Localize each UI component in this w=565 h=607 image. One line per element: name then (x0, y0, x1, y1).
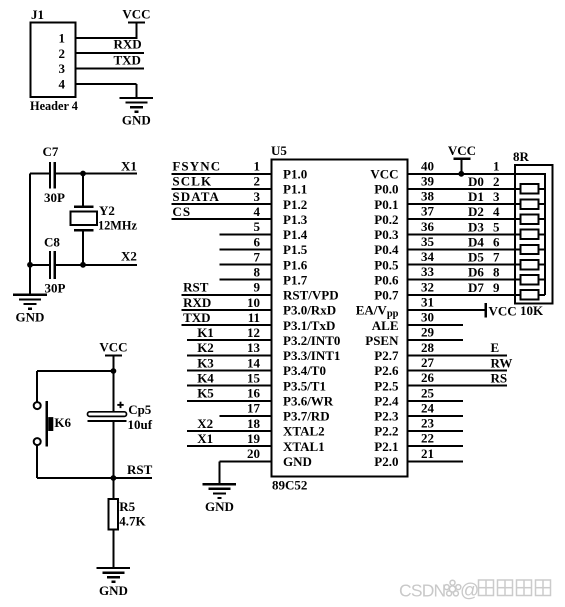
svg-text:14: 14 (247, 355, 261, 370)
svg-text:ALE: ALE (372, 318, 399, 333)
svg-text:X2: X2 (197, 416, 213, 431)
wire pin 10 (182, 309, 273, 311)
svg-text:30: 30 (421, 310, 434, 325)
svg-text:GND: GND (205, 499, 234, 514)
svg-text:39: 39 (421, 173, 435, 188)
svg-text:28: 28 (421, 340, 435, 355)
wire pin 31 (406, 309, 485, 311)
svg-text:P0.3: P0.3 (374, 227, 399, 242)
wire J1 pin1 to VCC (76, 37, 137, 39)
svg-text:CS: CS (172, 204, 191, 219)
svg-text:32: 32 (421, 279, 434, 294)
capacitor Cp5 polarized (88, 412, 127, 421)
wire J1 pin3 TXD (76, 68, 144, 70)
svg-text:Header 4: Header 4 (30, 99, 78, 113)
svg-text:RS: RS (491, 370, 508, 385)
svg-text:12: 12 (247, 325, 260, 340)
resistor element 8 of network 8R (521, 290, 545, 299)
svg-text:P3.2/INT0: P3.2/INT0 (283, 333, 340, 348)
svg-text:P3.3/INT1: P3.3/INT1 (283, 348, 340, 363)
svg-text:1: 1 (254, 159, 261, 174)
svg-text:C7: C7 (43, 144, 59, 159)
svg-text:21: 21 (421, 446, 434, 461)
svg-text:30P: 30P (44, 190, 65, 205)
svg-text:P1.7: P1.7 (283, 272, 308, 287)
wire pin 17 (220, 415, 273, 417)
svg-text:D6: D6 (468, 265, 484, 280)
svg-text:1: 1 (493, 158, 500, 173)
svg-text:X1: X1 (197, 431, 213, 446)
svg-text:P3.4/T0: P3.4/T0 (283, 363, 326, 378)
svg-text:K3: K3 (197, 355, 214, 370)
svg-text:P1.3: P1.3 (283, 212, 308, 227)
wire left vertical bus of crystal (29, 174, 31, 295)
wire pin 36 (406, 233, 520, 235)
wire pin 6 (220, 249, 273, 251)
svg-text:P2.2: P2.2 (374, 424, 398, 439)
VCC symbol at P0 pull-ups (448, 143, 476, 159)
svg-text:XTAL1: XTAL1 (283, 439, 325, 454)
svg-text:D3: D3 (468, 219, 484, 234)
wire pin 28 (406, 354, 507, 356)
svg-text:X2: X2 (121, 248, 137, 263)
svg-text:P1.1: P1.1 (283, 182, 307, 197)
wire pin 26 (406, 385, 507, 387)
resistor element 4 of network 8R (521, 230, 545, 239)
svg-text:7: 7 (493, 250, 500, 265)
wire pin 39 (406, 188, 520, 190)
capacitor C8 (30, 251, 83, 279)
svg-text:GND: GND (122, 113, 151, 128)
svg-text:P0.0: P0.0 (374, 182, 398, 197)
wire pin 1 (171, 173, 272, 175)
wire pin 38 (406, 203, 520, 205)
wire VCC down to Cp5 (112, 356, 114, 412)
svg-text:FSYNC: FSYNC (172, 159, 221, 174)
svg-text:VCC: VCC (489, 303, 517, 318)
svg-text:P0.4: P0.4 (374, 242, 399, 257)
junction X1 node (80, 171, 86, 177)
svg-text:31: 31 (421, 295, 434, 310)
wire pin 19 (187, 445, 272, 447)
svg-text:1: 1 (59, 31, 66, 46)
svg-text:D5: D5 (468, 250, 484, 265)
svg-text:13: 13 (247, 340, 261, 355)
svg-text:E: E (491, 340, 500, 355)
svg-text:D4: D4 (468, 235, 484, 250)
svg-text:D1: D1 (468, 189, 484, 204)
svg-text:P0.7: P0.7 (374, 288, 399, 303)
junction VCC node of reset (111, 368, 117, 374)
svg-text:20: 20 (247, 446, 260, 461)
wire pin 14 (187, 370, 272, 372)
wire pin 20 down to ground (218, 461, 220, 484)
wire key branch left upper (36, 371, 38, 402)
capacitor C7 (30, 162, 83, 189)
svg-text:TXD: TXD (183, 310, 210, 325)
wire crystal bottom to X2 node (82, 230, 84, 265)
svg-text:GND: GND (16, 310, 45, 325)
wire to key branch top (37, 370, 113, 372)
svg-text:P2.4: P2.4 (374, 394, 399, 409)
wire pin 24 (406, 415, 462, 417)
svg-text:18: 18 (247, 416, 261, 431)
wire pin 33 (406, 279, 520, 281)
svg-text:CSDN: CSDN (399, 581, 446, 601)
junction pin 40 VCC (458, 171, 464, 177)
wire pin 7 (220, 264, 273, 266)
svg-text:30P: 30P (45, 281, 66, 296)
svg-text:K2: K2 (197, 340, 214, 355)
svg-text:P0.1: P0.1 (374, 197, 398, 212)
svg-text:89C52: 89C52 (272, 477, 307, 492)
svg-text:24: 24 (421, 400, 435, 415)
wire pin 2 (171, 188, 272, 190)
svg-text:P2.7: P2.7 (374, 348, 399, 363)
IC U5 89C52 chip body (272, 160, 408, 477)
svg-text:D0: D0 (468, 174, 484, 189)
wire VCC to pin 40 net (460, 159, 462, 174)
watermark CSDN (399, 580, 551, 602)
VCC symbol at reset circuit (99, 340, 127, 356)
svg-text:X1: X1 (121, 158, 137, 173)
wire pin 30 (406, 324, 462, 326)
svg-text:P3.0/RxD: P3.0/RxD (283, 303, 336, 318)
plus sign of Cp5 (117, 402, 123, 408)
svg-text:P2.3: P2.3 (374, 409, 399, 424)
VCC tie at EA pin 31 (485, 303, 487, 318)
svg-text:8: 8 (254, 265, 261, 280)
wire pin 27 (406, 370, 507, 372)
svg-text:7: 7 (254, 249, 261, 264)
junction on left bus (27, 262, 33, 268)
wire pin 9 (182, 294, 273, 296)
svg-text:25: 25 (421, 385, 435, 400)
svg-text:26: 26 (421, 370, 435, 385)
svg-text:K1: K1 (197, 325, 214, 340)
svg-text:P1.0: P1.0 (283, 167, 307, 182)
svg-text:J1: J1 (31, 7, 44, 22)
resistor element 6 of network 8R (521, 260, 545, 269)
svg-text:17: 17 (247, 401, 261, 416)
svg-text:P3.1/TxD: P3.1/TxD (283, 318, 335, 333)
wire VCC drop at J1 (135, 23, 137, 40)
svg-text:10uf: 10uf (128, 417, 153, 432)
svg-text:23: 23 (421, 416, 435, 431)
svg-text:35: 35 (421, 234, 435, 249)
svg-text:VCC: VCC (99, 340, 127, 355)
wire pin 22 (406, 445, 462, 447)
wire key branch bottom (37, 477, 113, 479)
svg-text:P1.4: P1.4 (283, 227, 308, 242)
ground at crystal (13, 295, 47, 325)
wire pin 16 (187, 400, 272, 402)
junction RST node (111, 475, 117, 481)
svg-text:P2.6: P2.6 (374, 363, 399, 378)
svg-text:P2.0: P2.0 (374, 454, 398, 469)
wire J1 pin2 RXD (76, 52, 144, 54)
svg-text:P0.6: P0.6 (374, 272, 399, 287)
wire down to ground at J1 (135, 84, 137, 98)
svg-text:P3.7/RD: P3.7/RD (283, 409, 330, 424)
resistor network 8R outer box (515, 165, 553, 303)
svg-text:P3.6/WR: P3.6/WR (283, 394, 334, 409)
svg-text:5: 5 (254, 219, 261, 234)
svg-text:RXD: RXD (183, 295, 211, 310)
wire pin 8 (220, 279, 273, 281)
svg-text:RST: RST (183, 280, 209, 295)
svg-text:22: 22 (421, 431, 434, 446)
resistor element 1 of network 8R (521, 184, 545, 193)
wire RST (113, 477, 152, 479)
svg-text:11: 11 (248, 310, 260, 325)
svg-text:VCC: VCC (370, 167, 398, 182)
key K6 pushbutton (34, 401, 54, 447)
svg-text:34: 34 (421, 249, 435, 264)
svg-text:P0.5: P0.5 (374, 257, 399, 272)
svg-text:6: 6 (254, 234, 261, 249)
wire pin 12 (187, 339, 272, 341)
svg-text:5: 5 (493, 219, 500, 234)
svg-text:33: 33 (421, 264, 435, 279)
ground at J1 (120, 98, 154, 128)
wire R5 to ground (112, 530, 114, 569)
svg-text:P1.2: P1.2 (283, 197, 307, 212)
wire pin 18 (187, 430, 272, 432)
svg-text:29: 29 (421, 325, 435, 340)
svg-text:P2.1: P2.1 (374, 439, 398, 454)
svg-text:10K: 10K (520, 303, 544, 318)
svg-text:4.7K: 4.7K (119, 514, 146, 529)
wire Cp5 to RST node (112, 422, 114, 478)
wire J1 pin4 to ground (76, 83, 137, 85)
wire pin 23 (406, 430, 462, 432)
ground at chip pin 20 (203, 484, 237, 514)
wire pin 32 (406, 294, 520, 296)
svg-text:P1.5: P1.5 (283, 242, 308, 257)
svg-text:37: 37 (421, 204, 435, 219)
wire pin 13 (187, 354, 272, 356)
svg-text:C8: C8 (44, 235, 60, 250)
svg-text:Cp5: Cp5 (128, 402, 152, 417)
wire pin 3 (171, 203, 272, 205)
svg-text:SDATA: SDATA (172, 189, 220, 204)
svg-text:GND: GND (283, 454, 312, 469)
wire pin 20 (219, 460, 272, 462)
svg-text:3: 3 (493, 189, 500, 204)
connector J1 box (31, 22, 76, 97)
wire pin 35 (406, 249, 520, 251)
resistor element 3 of network 8R (521, 215, 545, 224)
wire pin 29 (406, 339, 462, 341)
svg-text:3: 3 (254, 189, 261, 204)
svg-text:16: 16 (247, 386, 261, 401)
svg-text:D2: D2 (468, 204, 484, 219)
svg-text:4: 4 (254, 204, 261, 219)
svg-text:38: 38 (421, 189, 435, 204)
VCC symbol at J1 (122, 7, 150, 23)
svg-text:@: @ (460, 581, 479, 602)
resistor element 5 of network 8R (521, 245, 545, 254)
wire pin 37 (406, 218, 520, 220)
svg-text:P3.5/T1: P3.5/T1 (283, 378, 326, 393)
svg-text:15: 15 (247, 370, 261, 385)
svg-text:10: 10 (247, 295, 260, 310)
wire pin 25 (406, 400, 462, 402)
wire pin 21 (406, 460, 462, 462)
svg-text:9: 9 (493, 280, 500, 295)
svg-text:8R: 8R (513, 149, 530, 164)
resistor element 7 of network 8R (521, 275, 545, 284)
svg-text:19: 19 (247, 431, 261, 446)
svg-text:P1.6: P1.6 (283, 257, 308, 272)
svg-text:SCLK: SCLK (172, 174, 212, 189)
svg-text:6: 6 (493, 235, 500, 250)
svg-text:VCC: VCC (448, 143, 476, 158)
ground at reset circuit (97, 568, 131, 598)
svg-text:8: 8 (493, 265, 500, 280)
svg-text:VCC: VCC (122, 7, 150, 22)
svg-text:RXD: RXD (114, 36, 142, 51)
svg-text:2: 2 (254, 174, 261, 189)
svg-text:9: 9 (254, 280, 261, 295)
wire pin 11 (182, 324, 273, 326)
svg-text:D7: D7 (468, 280, 484, 295)
crystal Y2 (70, 207, 97, 231)
svg-text:R5: R5 (119, 499, 135, 514)
wire pin 34 (406, 264, 520, 266)
svg-text:RST/VPD: RST/VPD (283, 288, 339, 303)
wire X1 (83, 173, 137, 175)
svg-text:36: 36 (421, 219, 435, 234)
svg-text:2: 2 (493, 174, 500, 189)
svg-text:3: 3 (59, 61, 66, 76)
svg-text:PSEN: PSEN (365, 333, 399, 348)
svg-text:P0.2: P0.2 (374, 212, 398, 227)
svg-text:TXD: TXD (114, 53, 141, 68)
svg-text:4: 4 (493, 204, 500, 219)
svg-text:XTAL2: XTAL2 (283, 424, 325, 439)
svg-text:K5: K5 (197, 386, 214, 401)
wire RST node to R5 (112, 478, 114, 499)
wire pin 5 (220, 233, 273, 235)
resistor network common rail (544, 174, 546, 295)
svg-text:27: 27 (421, 355, 435, 370)
svg-text:U5: U5 (271, 143, 287, 158)
wire pin 40 (406, 173, 546, 175)
wire X1 node to crystal top (82, 174, 84, 207)
svg-text:4: 4 (59, 77, 66, 92)
resistor element 2 of network 8R (521, 199, 545, 208)
junction X2 node (80, 262, 86, 268)
wire pin 15 (187, 385, 272, 387)
svg-text:Y2: Y2 (99, 203, 115, 218)
svg-text:40: 40 (421, 158, 434, 173)
svg-text:K6: K6 (54, 415, 71, 430)
wire pin 4 (171, 218, 272, 220)
svg-text:GND: GND (99, 583, 128, 598)
wire key branch left lower (36, 445, 38, 478)
svg-text:RST: RST (127, 462, 153, 477)
svg-text:K4: K4 (197, 370, 214, 385)
svg-text:RW: RW (491, 355, 513, 370)
svg-text:P2.5: P2.5 (374, 378, 399, 393)
wire X2 (83, 264, 137, 266)
svg-text:12MHz: 12MHz (98, 219, 137, 233)
resistor R5 (108, 499, 118, 530)
svg-text:2: 2 (59, 46, 66, 61)
